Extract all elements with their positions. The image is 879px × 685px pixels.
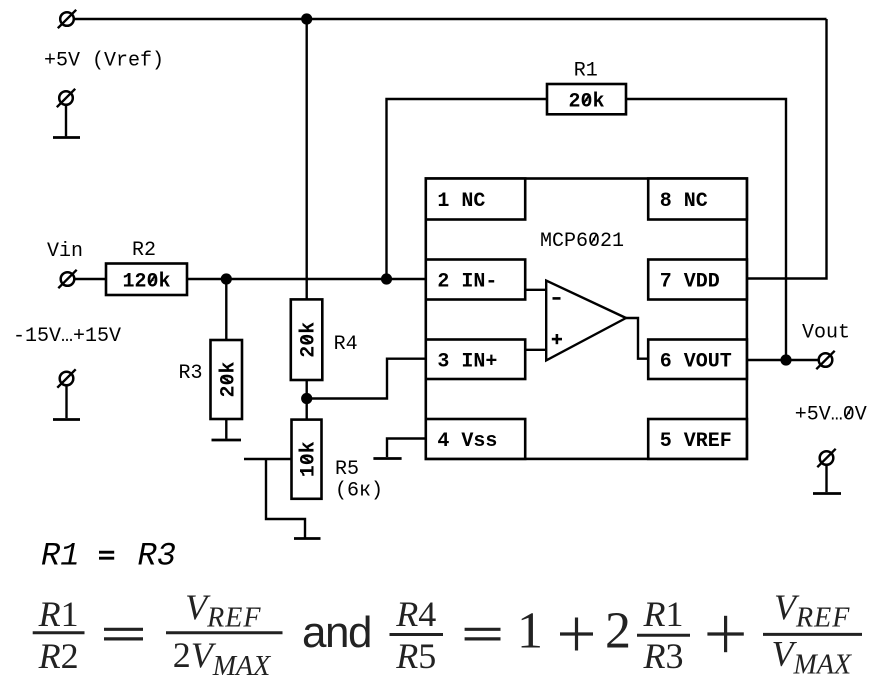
svg-text:R4: R4 <box>334 333 358 356</box>
wire pin3 to op-amp plus input <box>524 349 547 351</box>
op-amp plus sign <box>552 338 562 341</box>
wire R5 tap to ground <box>266 459 305 538</box>
wire R3 top lead <box>225 279 227 340</box>
wire R2 to pin2 IN- <box>187 278 426 280</box>
svg-text:MCP6021: MCP6021 <box>540 230 624 253</box>
svg-text:VMAX: VMAX <box>772 634 852 681</box>
wire R1 right down to Vout node <box>626 99 786 360</box>
svg-text:20k: 20k <box>217 361 240 397</box>
junction dot R4 / R5 / IN+ <box>301 393 312 404</box>
junction dot top rail / R4 <box>301 13 312 24</box>
wire R4 to R5 <box>306 380 308 420</box>
terminal Vout <box>816 351 834 369</box>
wire +5V top rail <box>74 18 827 20</box>
resistor R1 <box>547 84 626 114</box>
pin 7 VDD <box>648 260 747 300</box>
svg-text:20k: 20k <box>568 90 604 113</box>
svg-text:20k: 20k <box>298 322 321 358</box>
junction dot IN- / R1 <box>381 273 392 284</box>
ground R5 <box>294 537 321 540</box>
wire IN- node up to R1 left <box>387 99 548 279</box>
svg-text:120k: 120k <box>122 271 170 294</box>
svg-text:R3: R3 <box>643 636 684 676</box>
resistor R5 <box>292 420 322 499</box>
op-amp U1 <box>546 281 626 361</box>
value 20k (R1) <box>568 90 604 113</box>
svg-text:R3: R3 <box>138 538 176 575</box>
wire pin4 Vss to ground <box>387 439 426 458</box>
ground terminal Vout <box>813 449 841 494</box>
wire pin6 VOUT to Vout terminal <box>747 359 818 361</box>
wire pin2 to op-amp minus input <box>525 289 547 291</box>
formula plus 1 <box>560 632 593 635</box>
wire Vin to R2 <box>75 278 106 280</box>
op-amp minus sign <box>553 297 561 300</box>
wire R5 tap <box>244 458 292 460</box>
svg-text:2VMAX: 2VMAX <box>173 635 271 682</box>
svg-text:(6к): (6к) <box>335 480 383 503</box>
svg-text:R1: R1 <box>643 594 684 634</box>
svg-text:1 NC: 1 NC <box>437 190 485 213</box>
terminal Vin <box>58 270 76 288</box>
wire R3 bottom lead <box>225 419 227 439</box>
svg-text:10k: 10k <box>298 441 321 477</box>
label +5V...0V <box>795 404 867 427</box>
svg-text:Vout: Vout <box>802 322 850 345</box>
pin 4 Vss <box>426 419 525 459</box>
pin 1 NC <box>426 179 525 220</box>
svg-text:R3: R3 <box>179 362 203 385</box>
svg-text:5 VREF: 5 VREF <box>660 430 732 453</box>
svg-text:Vin: Vin <box>47 240 83 263</box>
junction dot R1 / VOUT <box>780 354 791 365</box>
svg-text:R1: R1 <box>41 538 79 575</box>
terminal +5V (Vref) <box>58 10 76 28</box>
IC U1 MCP6021 outline <box>426 179 747 459</box>
formula equals 2 <box>465 628 501 631</box>
wire R4 branch from +5V rail <box>306 19 308 299</box>
ground pin4 Vss <box>373 457 401 460</box>
svg-text:4 Vss: 4 Vss <box>437 430 497 453</box>
svg-text:R5: R5 <box>395 636 436 676</box>
value 20k (R4) <box>298 322 321 358</box>
svg-text:R4: R4 <box>395 594 436 634</box>
svg-text:8 NC: 8 NC <box>660 190 708 213</box>
resistor R4 <box>291 299 323 380</box>
resistor R3 <box>211 340 243 419</box>
pin 5 VREF <box>648 419 747 459</box>
svg-text:R2: R2 <box>38 636 79 676</box>
formula plus 2 <box>707 632 743 635</box>
svg-text:+5V (Vref): +5V (Vref) <box>44 50 164 73</box>
svg-text:R1: R1 <box>574 60 598 83</box>
value 20k (R3) <box>217 361 240 397</box>
ground terminal below Vref label <box>53 89 80 138</box>
pin 8 NC <box>648 179 747 220</box>
svg-text:+5V…0V: +5V…0V <box>795 404 867 427</box>
svg-text:2 IN-: 2 IN- <box>437 271 497 294</box>
ground R3 <box>212 439 242 442</box>
pin 3 IN+ <box>426 340 525 380</box>
svg-text:and: and <box>302 608 371 657</box>
svg-text:-15V…+15V: -15V…+15V <box>13 325 121 348</box>
label MCP6021 <box>540 230 624 253</box>
svg-text:7 VDD: 7 VDD <box>660 271 720 294</box>
svg-text:VREF: VREF <box>185 587 261 634</box>
junction dot R2 / R3 <box>221 273 232 284</box>
value 120k <box>122 271 170 294</box>
formula: R1/R2 = VREF/2VMAX and R4/R5 = 1 + 2 R1/R3 + VREF/VMAX <box>33 587 862 682</box>
formula equals 1 <box>104 628 143 631</box>
svg-text:3 IN+: 3 IN+ <box>437 351 497 374</box>
svg-text:R5: R5 <box>335 458 359 481</box>
svg-text:1: 1 <box>517 603 543 660</box>
value 10k (R5) <box>298 441 321 477</box>
resistor R2 <box>106 264 187 296</box>
svg-text:VREF: VREF <box>774 587 850 634</box>
svg-text:R2: R2 <box>132 239 156 262</box>
ground terminal below -15V label <box>53 369 80 419</box>
svg-text:6 VOUT: 6 VOUT <box>660 351 732 374</box>
svg-text:R1: R1 <box>38 594 79 634</box>
pin 2 IN- <box>426 260 525 300</box>
pin 6 VOUT <box>648 340 747 380</box>
wire op-amp output to pin6 VOUT <box>626 318 648 359</box>
wire R4/R5 node to pin3 IN+ <box>307 359 426 399</box>
svg-text:2: 2 <box>605 603 631 660</box>
wire top rail to VDD (right vertical) <box>747 19 827 279</box>
